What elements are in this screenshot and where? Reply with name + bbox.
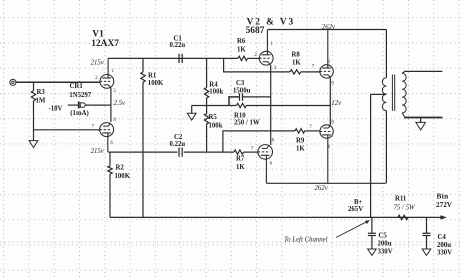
resistor R6 (238, 56, 248, 60)
pin 1 V3a (328, 60, 331, 65)
capacitor C5 (368, 233, 376, 235)
arrow Bin right (440, 215, 447, 219)
label R2 value 100K (115, 173, 131, 180)
label R6 value 1K (237, 47, 246, 54)
svg-text:1K: 1K (236, 164, 245, 171)
wire R10 right to cathodes (246, 105, 330, 107)
label R5 (209, 114, 218, 121)
svg-text:0.22u: 0.22u (170, 42, 186, 49)
svg-text:1500u: 1500u (233, 88, 251, 95)
transformer T1 secondary winding (402, 73, 406, 113)
label R9 (296, 138, 305, 145)
label R5 value 100k (209, 122, 223, 129)
label R2 (116, 165, 125, 172)
wire secondary top lead (402, 71, 442, 73)
wire CR1 right (86, 104, 111, 106)
ground under C4 (422, 249, 431, 255)
label C2 value (170, 141, 186, 148)
resistor R3 (31, 91, 35, 101)
svg-text:R7: R7 (236, 155, 245, 162)
wire secondary bottom lead thick (404, 117, 442, 119)
pin 6 V2b (270, 162, 273, 167)
resistor R2 (108, 166, 112, 174)
resistor R7 (234, 150, 244, 154)
wire R1 top (142, 58, 144, 72)
label Bin (437, 192, 449, 201)
wire primary center tap (371, 93, 387, 95)
svg-text:215v: 215v (91, 59, 105, 66)
resistor R9 (295, 129, 305, 133)
annotation arrow to left channel (336, 220, 370, 237)
svg-text:12v: 12v (331, 100, 342, 107)
wire C3 left bracket (229, 97, 239, 106)
capacitor C2 (179, 148, 182, 157)
transformer T1 core (392, 75, 394, 112)
label C1 (174, 35, 183, 42)
capacitor C1 (179, 54, 182, 63)
label 262v top (322, 24, 336, 31)
pin 8 V2b (272, 138, 275, 143)
svg-text:R10: R10 (234, 112, 246, 119)
wire bottom plate rail 262v (267, 182, 386, 184)
wire CR1 left stub (68, 104, 78, 106)
svg-text:100k: 100k (209, 88, 223, 95)
label 5687 (246, 26, 265, 36)
wire R7 to V2b grid (244, 151, 258, 153)
svg-text:R5: R5 (209, 114, 218, 121)
svg-text:262v: 262v (322, 24, 336, 31)
resistor R5 (204, 114, 208, 125)
svg-text:330V: 330V (437, 250, 452, 257)
label 262v bottom (315, 185, 329, 192)
wire V1b grid (34, 129, 100, 131)
svg-text:75 / 5W: 75 / 5W (394, 205, 416, 212)
label C3 (236, 80, 245, 87)
pin 7 V3a (312, 65, 315, 70)
svg-text:R11: R11 (395, 195, 407, 202)
label V1 (92, 29, 104, 39)
label (1mA) (70, 110, 89, 117)
label 215v V1a plate (91, 59, 105, 66)
svg-text:215v: 215v (91, 148, 105, 155)
svg-text:C4: C4 (438, 234, 447, 241)
label CR1 (70, 83, 84, 90)
capacitor C4 (423, 233, 431, 235)
label C5 (379, 232, 388, 239)
pin 7 V1b (92, 124, 95, 129)
triode V2b (5687) (258, 145, 273, 184)
pin 8 V3b (331, 121, 334, 126)
svg-text:200u: 200u (378, 240, 392, 247)
label R8 (292, 52, 301, 59)
svg-text:R4: R4 (209, 81, 218, 88)
wire secondary bottom lead (402, 113, 405, 118)
svg-text:262v: 262v (315, 185, 329, 192)
pin 7 V3b (309, 125, 312, 130)
svg-text:100K: 100K (148, 80, 164, 87)
svg-text:1K: 1K (237, 47, 246, 54)
triode V1b (12AX7 bottom) (100, 123, 114, 153)
label C1 value (170, 42, 186, 49)
wire step to V3b grid row (223, 131, 295, 152)
resistor R8 (290, 70, 301, 74)
label R11 (395, 195, 407, 202)
ground secondary (416, 122, 426, 130)
wire V1 cathodes common (110, 88, 112, 122)
svg-text:R8: R8 (292, 52, 301, 59)
pin 8 V3a (331, 82, 334, 87)
svg-text:(1mA): (1mA) (70, 110, 89, 117)
wire step to V3a grid row (224, 58, 290, 72)
pin 6 V3b (328, 145, 331, 150)
label R10 (234, 112, 246, 119)
label R3 (37, 89, 46, 96)
svg-text:2.5v: 2.5v (114, 100, 126, 107)
wire primary bottom lead (385, 111, 387, 184)
svg-text:R2: R2 (116, 165, 125, 172)
svg-text:100k: 100k (209, 122, 223, 129)
svg-text:1N5297: 1N5297 (69, 92, 92, 99)
label R1 value 100K (148, 80, 164, 87)
svg-text:-18V: -18V (49, 106, 63, 113)
pin 6 V1b (111, 141, 114, 146)
triode V2a (5687) (259, 30, 273, 66)
svg-text:To Left Channel: To Left Channel (284, 237, 328, 244)
svg-text:5687: 5687 (246, 26, 265, 36)
wire R4 to junction (206, 98, 208, 114)
label R9 value 1K (296, 145, 305, 152)
label R7 value 1K (236, 164, 245, 171)
pin 2 V1a (95, 76, 98, 81)
svg-text:250 / 1W: 250 / 1W (234, 120, 260, 127)
wire V3 cathode line (329, 78, 331, 125)
label C2 (174, 134, 183, 141)
wire R3 top (33, 82, 35, 90)
label R6 (237, 38, 246, 45)
ground at R4 R5 junction (187, 113, 196, 120)
wire C2 to R7 (184, 151, 234, 153)
label B+ (354, 199, 363, 206)
wire C5 bottom (371, 236, 373, 250)
wire R8 to V3a grid (301, 71, 320, 73)
svg-text:V1: V1 (92, 29, 104, 39)
wire center tap down to rail (370, 94, 372, 217)
wire R9 to V3b grid (305, 130, 320, 132)
pin 2 V2a (254, 53, 257, 58)
pin 1 V1a (112, 69, 115, 74)
ground under R3 (29, 141, 38, 148)
svg-text:1K: 1K (292, 59, 301, 66)
transformer T1 primary winding (382, 78, 386, 111)
wire C4 bottom (426, 236, 428, 250)
label C3 value 1500u (233, 88, 251, 95)
label CR1 part 1N5297 (69, 92, 92, 99)
svg-text:R1: R1 (148, 72, 157, 79)
pin 3 V2a (274, 66, 277, 71)
label C4 value 200u (437, 242, 451, 249)
pin 8 V1b (113, 118, 116, 123)
wire C3 right (243, 96, 271, 98)
wire C4 top (426, 217, 428, 233)
svg-text:330V: 330V (378, 249, 393, 256)
wire top plate rail 262v (268, 29, 387, 31)
label R11 value (394, 205, 416, 212)
label R10 value (234, 120, 260, 127)
capacitor C3 (240, 93, 243, 101)
triode V3a (5687) (320, 30, 333, 79)
svg-text:R9: R9 (296, 138, 305, 145)
svg-text:C3: C3 (236, 80, 245, 87)
diode CR1 1N5297 (79, 102, 86, 109)
label R3 value 1M (36, 98, 46, 105)
svg-text:200u: 200u (437, 242, 451, 249)
svg-text:100K: 100K (115, 173, 131, 180)
wire primary top lead (385, 30, 387, 78)
label 215v V1b plate (91, 148, 105, 155)
pin 3 V1a (113, 89, 116, 94)
label B+ 265V (348, 206, 363, 213)
label 12v cathode voltage (331, 100, 342, 107)
wire R3 bottom to ground node (33, 101, 35, 141)
wire B+ rail (110, 216, 441, 218)
label C5 voltage 330V (378, 249, 393, 256)
triode V3b (5687) (320, 125, 333, 184)
label Bin 272V (436, 201, 453, 209)
wire V1a plate row (108, 57, 238, 59)
svg-text:CR1: CR1 (70, 83, 84, 90)
wire V1b plate row (108, 151, 177, 153)
svg-text:C2: C2 (174, 134, 183, 141)
wire secondary ground stem (420, 118, 422, 123)
label C4 (438, 234, 447, 241)
wire cathode bias row (207, 105, 237, 107)
svg-text:272V: 272V (436, 201, 453, 209)
svg-text:C5: C5 (379, 232, 388, 239)
label R4 (209, 81, 218, 88)
svg-text:0.22u: 0.22u (170, 141, 186, 148)
wire C5 top (371, 217, 373, 233)
label V2 and V3 (247, 17, 296, 27)
resistor R4 (204, 88, 208, 99)
resistor R10 (237, 103, 247, 107)
label R1 (148, 72, 157, 79)
wire R2 top (109, 152, 111, 166)
input terminal J1 (10, 79, 16, 85)
wire R1 bottom to B+ rail (142, 82, 144, 217)
svg-text:1K: 1K (296, 145, 305, 152)
resistor R11 (398, 215, 408, 219)
triode V1a (12AX7 top) (100, 58, 114, 88)
wire V2 cathode line (270, 65, 272, 145)
ground under C5 (368, 249, 377, 255)
svg-text:12AX7: 12AX7 (91, 39, 119, 49)
wire input to V1a grid (16, 81, 100, 83)
svg-text:Bin: Bin (437, 192, 449, 201)
svg-text:R3: R3 (37, 89, 46, 96)
pin 7 V2b (251, 147, 254, 152)
label R4 value 100k (209, 88, 223, 95)
wire R4 top (206, 58, 208, 87)
label 12AX7 (91, 39, 119, 49)
svg-text:1M: 1M (36, 98, 46, 105)
wire junction to ground (192, 105, 207, 107)
label C5 value 200u (378, 240, 392, 247)
label R7 (236, 155, 245, 162)
ground stem divider (191, 106, 193, 114)
wire R5 bottom (206, 124, 208, 152)
svg-text:265V: 265V (348, 206, 363, 213)
label C4 voltage 330V (437, 250, 452, 257)
label 2.5v cathode voltage (114, 100, 126, 107)
wire R2 bottom to rail (109, 174, 111, 217)
svg-text:R6: R6 (237, 38, 246, 45)
pin 1 V2a (270, 42, 273, 47)
label -18V (49, 106, 63, 113)
wire after R6 to V2a grid (248, 57, 260, 59)
svg-text:B+: B+ (354, 199, 363, 206)
label R8 value 1K (292, 59, 301, 66)
label To Left Channel (284, 237, 328, 244)
resistor R1 (141, 72, 145, 82)
